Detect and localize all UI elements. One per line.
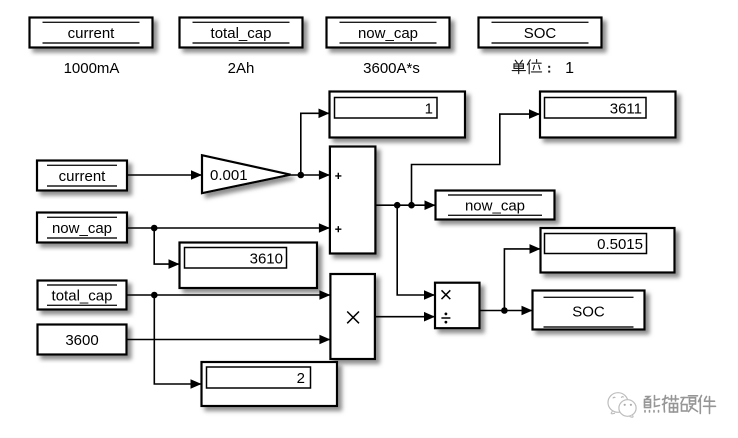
wire sum output to data store write now_cap — [375, 204, 435, 206]
sum block — [330, 147, 376, 254]
svg-text:1: 1 — [565, 60, 574, 77]
display block value 3611 — [540, 92, 676, 138]
wire product output to divide input 2 — [375, 316, 435, 318]
char mao — [664, 396, 665, 413]
product block — [330, 274, 375, 359]
svg-text:1: 1 — [425, 100, 433, 117]
wire 3600 to product input 2 — [127, 339, 331, 341]
node now_cap junction — [151, 225, 158, 232]
wire junction up to display 0.5015 — [504, 249, 540, 311]
wire current to gain — [127, 174, 202, 176]
fullwidth colon — [548, 66, 550, 68]
svg-text:total_cap: total_cap — [52, 287, 113, 304]
char jian — [699, 396, 702, 402]
svg-text:current: current — [68, 25, 116, 42]
goto block SOC — [533, 291, 645, 330]
svg-text:2Ah: 2Ah — [228, 60, 255, 77]
watermark text xiong-mao-ying-jian — [645, 396, 716, 414]
data store memory tag current — [30, 18, 153, 48]
from block now_cap — [37, 213, 127, 243]
data store memory tag total_cap — [180, 18, 303, 48]
svg-text:3600: 3600 — [65, 332, 98, 349]
svg-text:now_cap: now_cap — [52, 220, 112, 237]
svg-text:now_cap: now_cap — [358, 25, 418, 42]
wire junction down to display 2 — [154, 295, 201, 384]
value label unit 1 (Chinese dan-wei colon one) — [512, 60, 550, 74]
char dan — [515, 60, 517, 63]
node sum output junction 2 — [408, 202, 415, 209]
svg-text:3611: 3611 — [610, 100, 642, 117]
node sum output junction 1 — [394, 202, 401, 209]
data store write block now_cap — [436, 191, 555, 220]
svg-text:3600A*s: 3600A*s — [363, 60, 420, 77]
svg-text:SOC: SOC — [524, 25, 557, 42]
char xiong — [646, 397, 650, 400]
wire divide output to goto SOC — [480, 310, 533, 312]
display block value 0.5015 — [541, 228, 675, 273]
svg-text:SOC: SOC — [572, 303, 605, 320]
svg-text:2: 2 — [297, 370, 305, 387]
wire gain to sum input 1 — [291, 174, 330, 176]
svg-text:1000mA: 1000mA — [64, 60, 120, 77]
node total_cap junction — [151, 292, 158, 299]
data store memory tag now_cap — [327, 18, 450, 48]
svg-text:3610: 3610 — [250, 250, 283, 267]
wire now_cap to sum input 2 — [127, 227, 330, 229]
wire total_cap to product input 1 — [127, 294, 331, 296]
svg-text:now_cap: now_cap — [465, 197, 525, 214]
gain block 0.001 — [202, 155, 291, 193]
node divide output junction — [501, 307, 508, 314]
wire junction down to display 3610 — [154, 228, 179, 264]
wire junction 2 up to display 3611 — [412, 114, 541, 205]
from block total_cap — [38, 281, 127, 310]
watermark panda icon — [608, 393, 636, 418]
svg-text:total_cap: total_cap — [211, 25, 272, 42]
display block value 3610 — [180, 243, 318, 289]
svg-text:0.5015: 0.5015 — [597, 236, 643, 253]
from block current — [37, 161, 127, 191]
wire junction 1 down to divide input 1 — [397, 205, 435, 295]
char ying — [681, 397, 688, 399]
node gain output junction — [298, 172, 305, 179]
wire junction up to display 1 — [301, 113, 330, 175]
divide block — [435, 283, 480, 329]
constant block 3600 — [38, 325, 127, 355]
display block value 1 — [330, 92, 466, 138]
char wei — [527, 60, 530, 65]
svg-text:current: current — [59, 168, 107, 185]
svg-text:0.001: 0.001 — [210, 167, 248, 184]
display block value 2 — [202, 362, 338, 406]
data store memory tag SOC — [479, 18, 602, 48]
